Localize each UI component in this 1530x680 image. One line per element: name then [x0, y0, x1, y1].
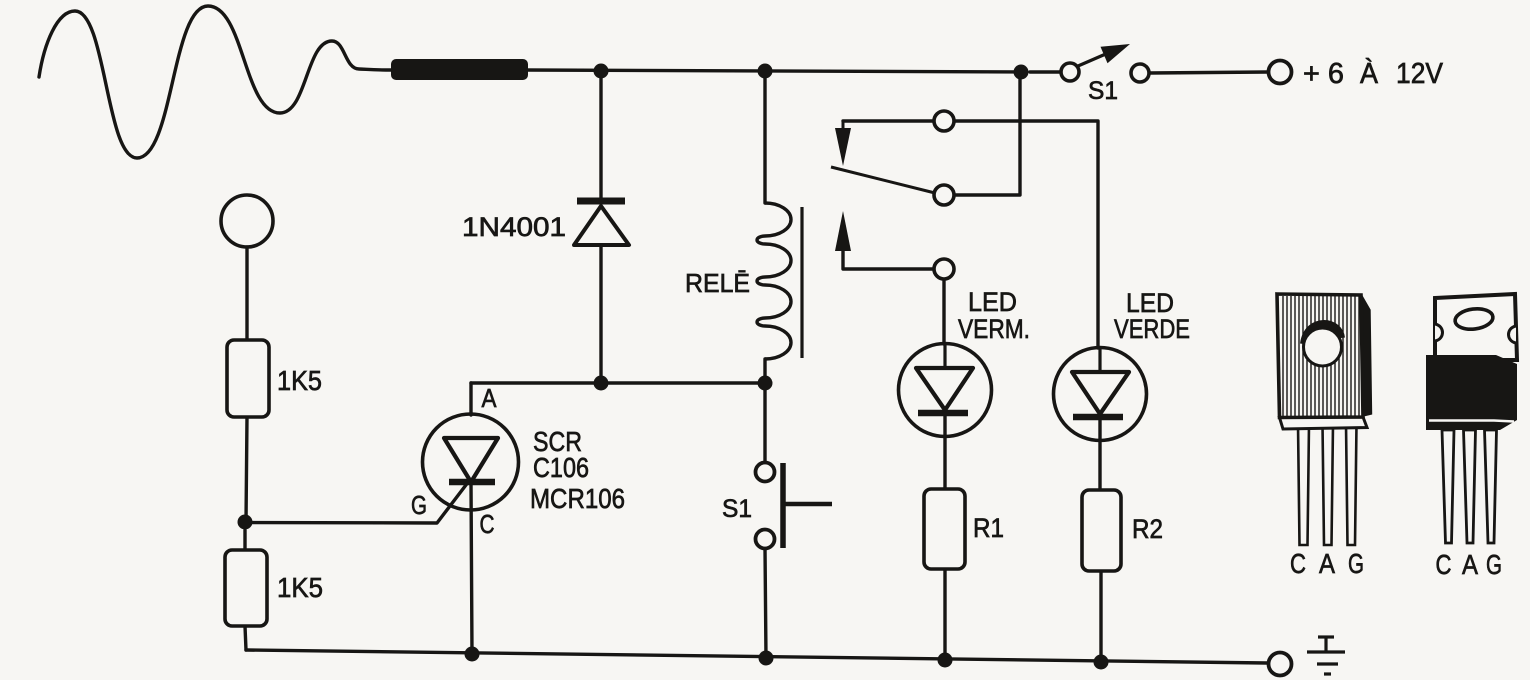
- node: bottom rail at R1: [938, 653, 953, 668]
- ground symbol: [1307, 637, 1345, 674]
- wire: diode branch down: [599, 71, 602, 198]
- wire: lower 1K5 stem and corner to rail: [245, 530, 246, 650]
- resistor 1K5 (upper): [227, 340, 269, 417]
- svg-text:S1: S1: [722, 495, 752, 523]
- svg-text:1N4001: 1N4001: [462, 212, 566, 242]
- node: bottom rail at pushbutton: [759, 651, 774, 666]
- svg-text:A: A: [1462, 549, 1478, 580]
- wire: diode anode to node: [599, 246, 602, 383]
- relay coil RELE: [757, 203, 791, 359]
- label LED VERM.: [958, 287, 1030, 344]
- node: bottom rail at R2: [1094, 655, 1109, 670]
- pkg1 labels C A G: [1290, 548, 1364, 579]
- wire: relay coil top feed: [763, 72, 766, 203]
- sensor electrode ball: [221, 195, 273, 247]
- wire: relay NO contact to LED VERM: [843, 251, 944, 344]
- svg-text:12V: 12V: [1396, 58, 1444, 90]
- package MCR106 (TO-220 case): [1426, 294, 1517, 580]
- relay core bar: [800, 207, 803, 358]
- wire: bottom rail: [246, 650, 1267, 663]
- svg-text:C: C: [1436, 549, 1452, 580]
- wire: R2 to bottom rail: [1099, 571, 1102, 662]
- wire: SCR anode up: [469, 383, 472, 415]
- wire: anode bus (SCR A to relay): [471, 381, 765, 384]
- resistor 1K5 (lower): [225, 550, 267, 626]
- terminal ground: [1269, 653, 1292, 676]
- relay contact: down arrow: [835, 121, 851, 166]
- label +6 A 12V: [1303, 57, 1444, 90]
- pkg2 leg G: [1485, 430, 1497, 543]
- pkg2 labels C A G: [1436, 549, 1503, 580]
- node: top rail junction at relay: [758, 64, 773, 79]
- terminal +V: [1269, 61, 1292, 84]
- svg-text:1K5: 1K5: [277, 572, 323, 603]
- svg-text:VERM.: VERM.: [958, 314, 1030, 344]
- svg-text:C106: C106: [533, 452, 589, 483]
- wire: switch S1 to +V terminal: [1030, 72, 1268, 73]
- pushbutton S1: [756, 463, 833, 549]
- wire: R1 to bottom rail: [943, 569, 946, 659]
- relay contact: movable arm: [831, 167, 935, 193]
- switch S1: [1061, 44, 1149, 82]
- pkg2 metal tab: [1435, 294, 1517, 360]
- svg-text:A: A: [482, 383, 498, 413]
- svg-text:LED: LED: [968, 287, 1017, 317]
- node: top rail junction at diode: [594, 64, 609, 79]
- svg-text:A: A: [1319, 548, 1335, 579]
- wire: pushbutton to bottom rail: [765, 548, 766, 658]
- pkg2 tab notch right: [1509, 326, 1517, 343]
- relay contact: common terminal: [934, 185, 954, 205]
- svg-text:G: G: [411, 490, 427, 520]
- svg-text:MCR106: MCR106: [530, 483, 625, 514]
- relay contact: NC terminal: [934, 111, 954, 131]
- wire: sensor electrode down to 1K5: [245, 247, 248, 340]
- pkg2 leg A: [1464, 430, 1476, 543]
- SCR U1: [423, 414, 519, 510]
- pkg1 leg A: [1323, 424, 1334, 545]
- resistor R1: [924, 489, 965, 569]
- pkg1 leg G: [1346, 424, 1357, 545]
- wire: relay common to +V rail: [954, 72, 1020, 195]
- svg-text:1K5: 1K5: [277, 365, 322, 396]
- wire: flexible sensor squiggle: [39, 6, 391, 158]
- LED VERM (LED1): [899, 344, 992, 437]
- svg-text:RELĒ: RELĒ: [685, 268, 750, 298]
- pkg1 hole shadow: [1304, 324, 1341, 344]
- pkg2 tab notch left: [1435, 324, 1443, 341]
- pkg1 side face: [1362, 296, 1372, 416]
- node: anode bus at diode: [594, 376, 609, 391]
- relay contact: up arrow: [835, 211, 851, 262]
- sensor tube (black sleeve): [391, 59, 528, 80]
- wire: relay NC contact to LED VERDE: [843, 121, 1098, 348]
- label LED VERDE: [1114, 288, 1190, 344]
- node: gate divider junction: [238, 515, 253, 530]
- wire: LED VERM to R1: [943, 413, 946, 489]
- wire: relay coil bottom to node and pushbutton: [763, 359, 766, 463]
- node: bottom rail at SCR cathode: [465, 647, 480, 662]
- resistor R2: [1082, 490, 1121, 571]
- svg-text:R1: R1: [973, 513, 1004, 543]
- svg-text:R2: R2: [1132, 514, 1163, 544]
- diode D1 1N4001: [574, 201, 629, 245]
- pkg1 hole: [1304, 328, 1342, 366]
- svg-text:G: G: [1348, 548, 1364, 579]
- pkg1 leg C: [1298, 424, 1309, 545]
- pkg2 body bottom line: [1429, 421, 1514, 422]
- relay contact: NO terminal: [934, 259, 954, 279]
- node: top rail junction at S1: [1014, 65, 1029, 80]
- svg-text:C: C: [1290, 548, 1306, 579]
- svg-text:C: C: [480, 509, 495, 539]
- wire: gate lead: [244, 481, 469, 523]
- wire: top rail: [524, 70, 1021, 72]
- LED VERDE (LED2): [1054, 348, 1147, 441]
- pkg2 black body: [1426, 355, 1517, 430]
- svg-text:VERDE: VERDE: [1114, 314, 1190, 344]
- svg-text:+ 6: + 6: [1303, 58, 1344, 90]
- pkg1 hatch: [1283, 296, 1359, 416]
- label SCR C106 MCR106: [530, 426, 625, 514]
- wire: LED VERDE internal to R2: [1098, 417, 1101, 490]
- svg-text:G: G: [1486, 549, 1502, 580]
- package C106 (hatched TO-126 case): [1277, 294, 1372, 579]
- wire: 1K5 to gate node: [246, 417, 247, 522]
- pkg1 bottom face: [1280, 417, 1368, 429]
- pkg2 leg C: [1442, 430, 1454, 543]
- svg-text:S1: S1: [1088, 77, 1118, 105]
- node: anode bus at relay: [758, 376, 773, 391]
- wire: SCR cathode down: [471, 482, 472, 654]
- svg-text:À: À: [1360, 57, 1379, 90]
- pkg2 tab hole: [1454, 307, 1494, 331]
- pkg1 front face: [1277, 294, 1363, 418]
